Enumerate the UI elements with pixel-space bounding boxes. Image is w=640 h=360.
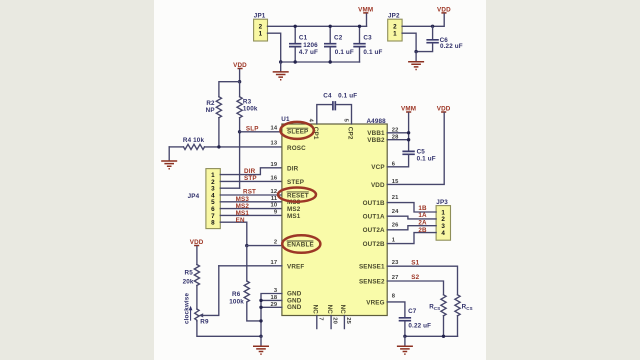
svg-text:C4: C4 [323,93,332,100]
wire U1 VBB1 to VMM stem [387,132,408,134]
capacitor C5 [387,149,436,167]
wire JP2 pin2 to VDD stem [402,14,444,26]
op-amp U1 A4988 IC body [281,116,387,316]
wire U1 OUT2B to JP3 pin4 [387,233,436,244]
svg-text:19: 19 [271,162,278,168]
svg-text:11: 11 [271,196,278,202]
annotation clockwise arrow [189,306,193,321]
power VDD (left, above R3) [233,62,247,69]
junction dot C7 bottom [403,335,406,338]
svg-text:JP1: JP1 [254,12,266,19]
wire VMM stem to C5 [408,113,410,151]
power VDD (bottom left) [190,239,204,246]
resistor R4 [169,137,204,150]
wiper arrow R9 [199,266,219,318]
svg-text:DIR: DIR [244,168,256,175]
power VDD (top right) [437,7,451,14]
svg-text:0.22 uF: 0.22 uF [440,43,463,50]
wire VREF to U1 pin 17 [219,265,282,267]
ground below C7 [397,336,413,354]
svg-text:R9: R9 [200,318,209,325]
annotation ellipse around ENABLE [282,235,320,253]
svg-text:R3: R3 [243,99,252,106]
junction dot R2/R4 [217,145,220,148]
wire U1 GND pins bus [261,294,282,337]
junction dot R2/R3 top [238,80,241,83]
svg-text:26: 26 [392,223,399,229]
svg-text:C7: C7 [408,308,417,315]
svg-text:0.1 uF: 0.1 uF [363,49,382,56]
svg-text:DIR: DIR [287,166,299,173]
wire U1 OUT1A to JP3 pin2 [387,216,436,219]
svg-text:VREG: VREG [366,299,384,306]
power VDD (right of U1) [437,106,451,113]
wire JP4 pin8 to ENABLE node [220,222,247,245]
svg-text:NP: NP [206,107,215,114]
svg-text:0.1 uF: 0.1 uF [338,93,357,100]
wire JP4 pin4 to U1 RESET [220,194,282,196]
wire R2 bottom to ROSC line [218,118,220,147]
power VMM (top) [358,7,373,14]
wire JP4 pin6 to U1 MS2 [220,208,282,210]
svg-text:1: 1 [393,31,397,38]
svg-text:R2: R2 [206,100,215,107]
capacitor C1 [289,26,318,62]
svg-text:JP4: JP4 [188,193,200,200]
svg-text:STEP: STEP [287,179,304,186]
resistor RCS (left, sense 2) [429,295,446,337]
svg-text:MS1: MS1 [287,213,301,220]
junction dots VBB1/VBB2 [407,131,410,134]
svg-text:2: 2 [393,24,397,31]
U1 right pin names [359,130,385,306]
wire VDD stem to R5 [196,246,198,264]
svg-text:C3: C3 [363,35,372,42]
svg-text:4: 4 [441,230,445,237]
svg-text:C1: C1 [299,35,308,42]
svg-text:12: 12 [271,189,278,195]
svg-text:SENSE1: SENSE1 [359,264,385,271]
potentiometer R9 [195,309,209,325]
wire VMM stem [366,14,368,26]
wire U1 SENSE1 to right RCS [387,266,457,295]
capacitor C6 [416,26,463,51]
svg-text:21: 21 [392,195,399,201]
wire VDD stem to R2/R3 node [239,69,241,81]
svg-text:2: 2 [274,239,277,245]
svg-text:1: 1 [259,31,263,38]
wire sense ground rail [405,335,458,337]
svg-text:SENSE2: SENSE2 [359,279,385,286]
power VMM (right of U1) [401,106,416,113]
wire JP4 pin3 up to SLP node [220,187,239,189]
svg-text:27: 27 [392,275,399,281]
wire JP4 pin1 to U1 DIR [220,168,282,175]
svg-text:1A: 1A [418,212,427,219]
svg-text:RST: RST [243,189,256,196]
wire R5 bottom to pot R9 [196,286,198,310]
svg-text:2B: 2B [418,227,427,234]
annotation ellipse around SLEEP [280,122,313,139]
connector JP2 [388,12,402,41]
wire JP2 pin1 down [402,33,416,51]
svg-text:C5: C5 [417,149,426,156]
capacitor C4 [317,93,357,124]
wire ROSC line (R4 to U1 pin 13) [205,146,282,148]
svg-text:OUT1B: OUT1B [363,200,385,207]
wire U1 VBB2 to VMM stem [387,139,408,141]
svg-text:OUT2A: OUT2A [363,227,385,234]
svg-text:ENABLE: ENABLE [287,242,314,249]
svg-text:S1: S1 [411,259,419,266]
junction dots GND bus [259,299,262,302]
svg-text:0.1 uF: 0.1 uF [335,49,354,56]
junction dot ENABLE node [245,244,248,247]
resistor R2 [206,97,222,118]
wire JP4 pin7 to U1 MS1 [220,214,282,216]
svg-text:4.7 uF: 4.7 uF [299,49,318,56]
capacitor C3 [353,26,382,62]
svg-text:clockwise: clockwise [184,293,191,324]
wire capacitor ground rail [281,61,360,63]
U1 left pin numbers [271,126,278,308]
junction dots ground rail [279,60,282,63]
U1 left pin names [287,128,314,311]
wire R3 bottom to SLP node and down to JP4 pin3 [239,118,241,189]
svg-text:VDD: VDD [371,182,385,189]
svg-text:20: 20 [332,317,338,324]
svg-text:1B: 1B [418,205,427,212]
svg-text:JP2: JP2 [388,12,400,19]
resistor R3 [237,82,258,118]
U1 right pin numbers [392,127,399,299]
schematic canvas [154,0,486,360]
svg-text:100k: 100k [229,298,244,305]
svg-text:STP: STP [244,175,257,182]
junction dot C6 top [431,25,434,28]
svg-text:JP3: JP3 [436,199,448,206]
svg-text:100k: 100k [243,106,258,113]
svg-text:SLP: SLP [246,125,259,132]
svg-text:R4 10k: R4 10k [183,137,205,144]
capacitor C2 [324,26,354,62]
svg-text:GND: GND [287,304,302,311]
svg-text:24: 24 [392,209,399,215]
wire VMM top rail (JP1 pin2 to VMM stem) [268,25,367,27]
svg-text:A4988: A4988 [366,118,386,125]
svg-text:NC: NC [326,305,333,315]
svg-text:NC: NC [312,305,319,315]
svg-text:20k: 20k [183,279,194,286]
svg-text:MS1: MS1 [236,210,250,217]
connector JP4 [188,169,221,229]
connector JP3 [436,199,450,240]
svg-text:SLEEP: SLEEP [287,129,308,136]
U1 pin CP1 (rotated) [308,119,319,140]
wire JP1 pin1 to ground rail [268,33,281,62]
svg-text:VREF: VREF [287,263,304,270]
svg-text:NC: NC [339,305,346,315]
annotation ellipse around RESET [278,188,316,202]
wire VDD stem to U1 pin 15 [387,113,444,184]
svg-text:17: 17 [271,260,278,266]
wire JP4 pin5 to U1 MS3 [220,201,282,203]
connector JP1 [254,12,268,41]
svg-text:EN: EN [236,217,245,224]
ground below R4 [161,147,177,169]
junction dots VMM rail [294,25,297,28]
svg-text:10: 10 [271,203,278,209]
capacitor C7 [399,308,431,336]
svg-text:C2: C2 [334,35,343,42]
svg-text:13: 13 [271,140,278,146]
resistor RCS (right, sense 1) [455,295,473,337]
svg-text:S2: S2 [411,274,419,281]
svg-text:0.1 uF: 0.1 uF [417,156,436,163]
svg-text:2A: 2A [418,220,427,227]
svg-text:VCP: VCP [371,164,384,171]
wire U1 OUT1B to JP3 pin1 [387,203,436,212]
junction dot SLP node [238,130,241,133]
svg-text:0.22 uF: 0.22 uF [408,322,431,329]
ground below JP2 [408,52,424,70]
svg-text:OUT2B: OUT2B [363,241,385,248]
wire ENABLE node to U1 pin 2 [247,245,282,247]
wire U1 SENSE2 to left RCS [387,281,443,295]
svg-text:R6: R6 [232,291,241,298]
svg-text:16: 16 [271,176,278,182]
svg-text:14: 14 [271,126,278,132]
wire pot bottom to ground rail [197,321,261,336]
wire U1 OUT2A to JP3 pin3 [387,226,436,230]
svg-text:25: 25 [345,317,351,324]
svg-text:OUT1A: OUT1A [363,214,385,221]
resistor R5 [183,265,200,286]
wire SLP to U1 pin 14 [240,131,282,133]
svg-text:7: 7 [317,317,323,320]
wire VREG to C7 [387,302,405,318]
svg-text:1206: 1206 [303,42,318,49]
svg-text:CP2: CP2 [347,127,354,140]
wire JP4 pin2 to U1 STEP [220,180,282,182]
U1 NC pins (bottom) [312,305,351,329]
wire R2 top branch [219,82,240,97]
U1 pin CP2 (rotated) [342,119,353,140]
ground below GND bus [253,336,269,354]
svg-text:VBB2: VBB2 [367,137,385,144]
junction dot left RCS bottom [442,335,445,338]
svg-text:8: 8 [211,220,215,227]
svg-text:R5: R5 [185,270,194,277]
junction dot JP2 ground node [414,50,417,53]
svg-text:ROSC: ROSC [287,145,306,152]
resistor R6 [229,246,261,321]
svg-text:2: 2 [259,24,263,31]
svg-text:23: 23 [392,260,399,266]
ground below JP1 rail [273,62,289,80]
